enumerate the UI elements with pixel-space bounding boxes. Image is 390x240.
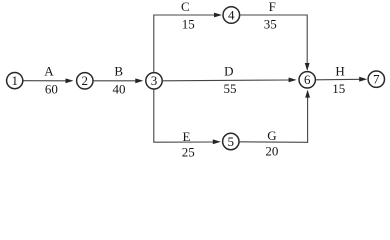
svg-text:35: 35	[264, 16, 277, 31]
wire C (3-4)	[153, 13, 222, 18]
svg-text:55: 55	[224, 81, 237, 96]
label B	[114, 64, 123, 79]
svg-text:3: 3	[151, 73, 158, 88]
label G	[267, 128, 276, 143]
node 5	[223, 133, 239, 149]
label D	[224, 64, 233, 79]
svg-text:C: C	[181, 0, 190, 14]
wire G (5-6)	[239, 90, 310, 143]
node 3	[146, 73, 162, 89]
svg-text:E: E	[183, 129, 191, 144]
value 60	[45, 82, 58, 97]
svg-text:G: G	[267, 128, 276, 143]
node 2	[77, 73, 93, 89]
node 4	[223, 7, 240, 24]
wire B (2-3)	[93, 78, 143, 83]
value 40	[113, 82, 126, 97]
wire E (3-5)	[153, 139, 221, 144]
svg-text:F: F	[269, 0, 276, 14]
svg-text:25: 25	[182, 144, 195, 159]
wire 3 down-riser	[153, 89, 155, 142]
wire F (4-6)	[240, 15, 310, 71]
label E	[183, 129, 191, 144]
wire 3 up-riser	[153, 15, 155, 72]
wire H (6-7)	[316, 77, 367, 82]
label A	[44, 64, 54, 79]
svg-text:H: H	[335, 64, 344, 79]
label F	[269, 0, 276, 14]
svg-text:60: 60	[45, 82, 58, 97]
value 25	[182, 144, 195, 159]
value 15	[182, 16, 195, 31]
svg-text:15: 15	[332, 81, 345, 96]
svg-text:2: 2	[82, 73, 89, 88]
svg-text:6: 6	[304, 72, 311, 87]
value 35	[264, 16, 277, 31]
node 7	[368, 71, 384, 87]
svg-text:20: 20	[265, 144, 278, 159]
label H	[335, 64, 344, 79]
svg-text:40: 40	[113, 82, 126, 97]
svg-text:D: D	[224, 64, 233, 79]
svg-text:1: 1	[11, 73, 18, 88]
wire D (3-6)	[163, 78, 297, 83]
svg-text:7: 7	[373, 72, 380, 87]
svg-text:A: A	[44, 64, 54, 79]
svg-text:15: 15	[182, 16, 195, 31]
value 20	[265, 144, 278, 159]
value 55	[224, 81, 237, 96]
svg-text:5: 5	[228, 134, 235, 149]
wire A (1-2)	[23, 78, 74, 83]
node 6	[299, 72, 315, 88]
node 1	[7, 73, 23, 89]
label C	[181, 0, 190, 14]
svg-text:B: B	[114, 64, 123, 79]
value 15	[332, 81, 345, 96]
svg-text:4: 4	[228, 7, 235, 22]
